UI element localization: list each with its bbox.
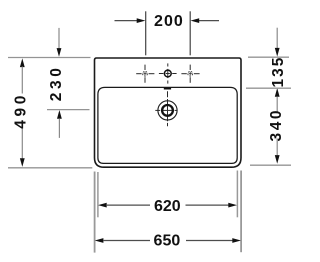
- svg-text:340: 340: [268, 108, 285, 142]
- dim 620 right extension: [236, 171, 238, 218]
- dim 230 bottom leader: [57, 110, 62, 119]
- dim 230 top leader: [58, 28, 60, 49]
- svg-text:135: 135: [270, 56, 287, 88]
- svg-text:490: 490: [13, 92, 30, 129]
- washbasin inner basin outline: [98, 87, 237, 163]
- dim 650 right leader: [186, 240, 233, 242]
- drain outer circle: [158, 101, 177, 120]
- svg-text:620: 620: [154, 198, 181, 215]
- dim 650 left extension: [94, 172, 96, 253]
- dim 620 left extension: [97, 172, 99, 217]
- right tap hole cross: [181, 65, 199, 83]
- right tap hole circle: [188, 71, 193, 76]
- drain centrelines: [155, 91, 177, 126]
- dim 620 left leader: [98, 203, 107, 208]
- dim 135/340 shared arrow: [275, 88, 280, 97]
- dim 490 line: [20, 58, 25, 67]
- dim 650 right extension: [240, 171, 242, 253]
- dim 490 bottom extension: [8, 167, 92, 169]
- right bottom extension: [250, 164, 291, 166]
- dim 490 top extension: [8, 57, 91, 59]
- left tap hole cross: [136, 65, 154, 83]
- dim 200 right leader: [199, 20, 220, 22]
- svg-text:200: 200: [154, 13, 184, 30]
- right top extension: [248, 56, 289, 58]
- right middle extension: [246, 87, 291, 89]
- dim 200 extension lines: [145, 11, 147, 55]
- overflow slot mark: [164, 88, 171, 90]
- left tap hole circle: [143, 71, 148, 76]
- dim 135 top leader: [276, 28, 278, 49]
- svg-text:230: 230: [48, 65, 65, 102]
- dim 340 bottom leader: [276, 139, 278, 156]
- dim 230 bottom extension: [47, 109, 90, 111]
- centre tap hole cross: [159, 63, 177, 83]
- dim 650 left leader: [95, 238, 104, 243]
- dim 620 right leader: [186, 204, 230, 206]
- svg-text:650: 650: [154, 233, 181, 250]
- dim 200 left leader: [115, 20, 138, 22]
- centre tap hole circle: [164, 70, 171, 77]
- washbasin outer outline: [95, 58, 242, 167]
- drain inner circle: [162, 105, 173, 116]
